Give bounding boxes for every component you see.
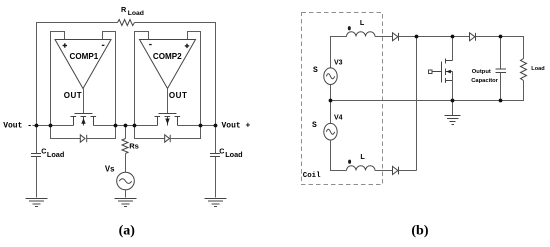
wire: diode D5 to riser [399, 170, 417, 172]
svg-text:(b): (b) [411, 224, 428, 239]
node: output capacitor top junction [499, 35, 503, 39]
label + COMP2 non-inverting pin [185, 44, 189, 48]
diode D2 [165, 135, 171, 142]
op-amp U2 (COMP2) [140, 40, 196, 89]
node: COMP2 - input rail junction [133, 124, 137, 128]
node: Vout- outer loop junction [35, 124, 39, 128]
wire: Vout- rail segment [33, 125, 74, 127]
wire: V4 bottom lead and corner [331, 140, 347, 171]
label + COMP1 non-inverting pin [63, 43, 67, 47]
ground (below C_Load left) [26, 199, 48, 207]
svg-text:V3: V3 [334, 59, 343, 66]
svg-text:Output: Output [472, 69, 491, 75]
wire: C_Load left bottom lead [36, 157, 38, 198]
capacitor C1 (C_Load left) [31, 154, 41, 157]
wire: top coil to diode D3 [375, 36, 393, 38]
source V3 (sine source) [324, 68, 337, 85]
node: riser top rail junction [415, 35, 419, 39]
svg-text:L: L [360, 152, 365, 161]
resistor Load zigzag [521, 59, 527, 81]
node a (top coil dot mark) [348, 26, 351, 30]
svg-text:V4: V4 [334, 115, 343, 122]
diode D3 [393, 33, 399, 41]
wire: bottom coil to diode D5 [375, 170, 393, 172]
wire: COMP1 non-inverting input hook [51, 32, 65, 139]
diode D5 [393, 166, 399, 174]
node: output capacitor bottom junction [499, 99, 503, 103]
capacitor C3 (Output Capacitor) [496, 69, 507, 73]
node: COMP1 + input rail junction [49, 124, 53, 128]
svg-text:OUT: OUT [169, 91, 188, 100]
inductor L2 (bottom coil) [347, 166, 376, 171]
svg-text:Load: Load [128, 10, 144, 17]
svg-text:COMP1: COMP1 [70, 52, 99, 61]
svg-text:S: S [312, 121, 317, 130]
resistor R_Load zigzag [118, 20, 135, 26]
transistor Q3 (panel-b MOSFET) [429, 59, 453, 84]
wire: D1 branch right leg [87, 126, 116, 139]
svg-text:Rs: Rs [129, 142, 139, 151]
transistor Q1 (COMP1 output MOSFET) [71, 114, 97, 126]
wire: Q3 drain to top rail [452, 37, 454, 61]
node a (bottom coil dot mark) [348, 160, 351, 164]
wire: COMP2 output lead [167, 89, 169, 114]
wire: C_Load right top lead [215, 126, 217, 154]
wire: D2 branch right leg [170, 126, 200, 139]
wire: panel-a outer loop top-right [135, 23, 216, 126]
svg-text:Vout -: Vout - [3, 122, 32, 131]
svg-text:OUT: OUT [64, 91, 83, 100]
wire: load bottom lead [501, 81, 524, 101]
svg-text:Vout +: Vout + [222, 122, 251, 131]
node: COMP1 - input rail junction [114, 124, 118, 128]
svg-text:(a): (a) [119, 224, 136, 239]
svg-text:C: C [219, 147, 224, 156]
wire: top rail D3 to D4 [399, 36, 470, 38]
wire: Vout+ rail segment [178, 125, 216, 127]
wire: D1 branch left leg [51, 126, 81, 139]
ground (below Vs) [115, 199, 137, 207]
wire: Q3 source to mid rail [452, 72, 454, 101]
wire: output capacitor bottom lead [500, 73, 502, 101]
label - COMP2 inverting pin [149, 44, 152, 45]
svg-text:Capacitor: Capacitor [471, 78, 498, 84]
node: Rs rail junction [124, 124, 128, 128]
transistor Q2 (COMP2 output MOSFET) [155, 114, 181, 126]
source V4 (sine source) [324, 123, 337, 140]
svg-text:Load: Load [225, 150, 242, 159]
label - COMP1 inverting pin [102, 45, 105, 46]
wire: panel-a outer loop top-left [37, 23, 118, 126]
node: Q3 drain top rail junction [451, 35, 455, 39]
svg-text:Load: Load [47, 150, 64, 159]
wire: mid rail segment between MOSFETs [94, 125, 158, 127]
wire: Rs to Vs lead [125, 154, 127, 173]
wire: D2 branch left leg [135, 126, 165, 139]
svg-text:Load: Load [531, 66, 545, 72]
svg-text:C: C [41, 147, 46, 156]
wire: C_Load right bottom lead [215, 157, 217, 198]
coil boundary (dashed box) [302, 13, 383, 185]
wire: V3 to V4 link [330, 85, 332, 124]
diode D1 [80, 135, 86, 142]
op-amp U1 (COMP1) [55, 40, 111, 89]
resistor Rs zigzag [122, 139, 128, 154]
wire: Rs top lead [125, 126, 127, 139]
node: ground mid rail junction [451, 99, 455, 103]
wire: COMP1 inverting input hook [103, 32, 116, 139]
wire: V3 top lead and corner [331, 37, 347, 68]
diode D4 [470, 33, 476, 41]
ground (below C_Load right) [205, 199, 227, 207]
wire: COMP2 non-inverting input hook [188, 32, 201, 139]
svg-text:Vs: Vs [105, 164, 115, 173]
svg-text:COMP2: COMP2 [153, 52, 182, 61]
wire: Vs bottom lead [125, 190, 127, 198]
svg-text:R: R [121, 5, 127, 14]
capacitor C2 (C_Load right) [210, 154, 220, 157]
node: COMP2 + input rail junction [199, 124, 203, 128]
wire: C_Load left top lead [36, 126, 38, 154]
wire: ground stub [452, 101, 454, 116]
node: Vout+ C_Load junction [214, 124, 218, 128]
node: V3-V4 mid junction [329, 99, 333, 103]
wire: bottom diode output riser [416, 37, 418, 171]
wire: output capacitor top lead [500, 37, 502, 69]
svg-text:S: S [313, 66, 318, 75]
wire: COMP1 output lead [83, 89, 85, 114]
svg-text:L: L [360, 18, 365, 27]
ground (panel b) [445, 116, 461, 125]
wire: top rail D4 to load corner [476, 37, 524, 59]
wire: mid rail of panel b [331, 100, 501, 102]
inductor L1 (top coil) [347, 32, 376, 37]
svg-text:Coil: Coil [303, 172, 321, 180]
wire: COMP2 inverting input hook [135, 32, 149, 139]
source Vs (sine source) [117, 172, 135, 190]
